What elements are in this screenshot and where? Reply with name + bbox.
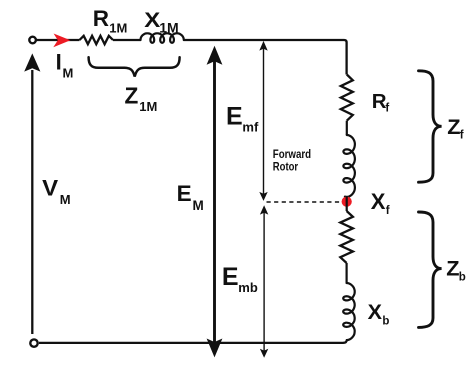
terminal top-left [29,37,36,44]
brace Z_f [419,71,442,182]
svg-text:f: f [460,129,464,141]
svg-text:M: M [63,66,74,81]
svg-text:Z: Z [446,255,459,280]
svg-text:f: f [386,205,390,217]
svg-text:f: f [385,102,389,114]
bottom wire [39,342,344,344]
svg-text:Z: Z [125,83,139,109]
terminal bottom-left [30,339,37,346]
svg-text:M: M [193,198,204,213]
arrow E_mf (thin, double-headed) [263,46,265,196]
brace Z1M (underbrace) [89,57,180,76]
svg-text:X: X [371,189,386,214]
svg-text:R: R [93,6,109,31]
svg-text:Z: Z [447,114,460,139]
wire R1M to X1M [113,39,141,41]
wire node to Rb [346,197,348,212]
inductor X_b [343,283,355,340]
svg-text:X: X [368,300,383,324]
wire X1M to top-right corner and down [184,40,347,75]
svg-text:E: E [177,181,192,206]
wire Rf to Xf [346,121,348,135]
brace Z_b [419,212,442,327]
svg-text:1M: 1M [159,19,178,35]
node dot (red) [342,197,352,207]
resistor R_f [341,75,353,121]
svg-text:E: E [226,103,243,131]
svg-text:Rotor: Rotor [273,160,298,174]
svg-text:M: M [60,192,71,207]
svg-text:mb: mb [238,280,258,295]
current arrow IM (red) [53,34,70,48]
svg-text:V: V [42,176,58,201]
resistor R_b (unlabeled) [340,211,353,263]
dashed line to node [267,201,342,203]
svg-text:mf: mf [242,119,259,134]
svg-text:E: E [222,263,239,291]
EMF arrow E_M (thick, double-headed) [213,58,216,345]
svg-text:b: b [382,316,389,328]
resistor R1M [80,36,114,44]
svg-text:b: b [459,271,466,283]
wire Xb into bottom wire [343,339,347,343]
wire top from terminal to R1M [36,39,79,41]
svg-text:1M: 1M [139,99,157,114]
voltage arrow V_M (left) [31,70,33,334]
wire Rb to Xb [346,263,348,284]
arrow E_mb (thin, double-headed) [263,210,265,352]
inductor X_f [343,135,355,197]
svg-text:I: I [56,50,62,75]
svg-text:1M: 1M [109,21,127,36]
inductor X1M [141,33,184,43]
